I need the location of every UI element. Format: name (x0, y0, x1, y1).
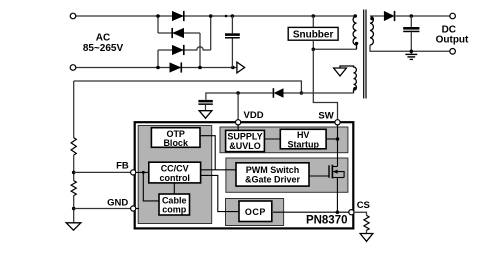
svg-text:VDD: VDD (244, 110, 264, 121)
capacitor C1 bulk (225, 16, 240, 68)
svg-text:control: control (159, 173, 190, 183)
node output cap bottom (410, 50, 414, 54)
box CC/CV control (149, 162, 201, 183)
wire CS external (354, 212, 367, 215)
transformer core (364, 10, 366, 99)
wire HV to SW (326, 138, 337, 140)
snubber box (288, 27, 338, 40)
wire bridge left rise from bottom to row3 (157, 50, 159, 68)
pin GND (131, 206, 136, 211)
wire SW feed (313, 49, 337, 121)
wire OTP out (200, 136, 215, 170)
wire R2 to GND node (73, 196, 75, 223)
node GND (72, 207, 76, 211)
node snubber bottom (312, 48, 316, 52)
wire top AC bus (73, 15, 357, 17)
diode D6 VDD pointing left (273, 88, 283, 98)
ground arrow right of rail (237, 62, 245, 73)
wire R3 to ground (366, 230, 368, 233)
wire bridge left drop to row2 (157, 16, 159, 33)
panel top gray (220, 127, 348, 153)
transistor Q1 MOSFET (329, 165, 344, 179)
wire left divider drop (73, 81, 75, 138)
wire CCCV to OCP (201, 175, 240, 211)
diode D2 row2 pointing left (172, 28, 184, 38)
pin VDD (236, 120, 241, 125)
svg-text:GND: GND (107, 198, 128, 209)
wire VDD line (206, 93, 274, 100)
diode D3 row3 (172, 45, 184, 55)
svg-text:Block: Block (163, 138, 189, 148)
transformer T1 primary (353, 16, 358, 49)
wire row2 anode down to bottom rail (199, 33, 201, 68)
ground aux (334, 68, 347, 76)
wire FB divider feed (74, 81, 302, 93)
box OCP (239, 201, 272, 222)
transformer secondary (370, 16, 374, 45)
wire SUPPLY to HV (264, 138, 280, 140)
node dots top bus (156, 14, 160, 18)
diode D4 bottom rail (170, 62, 182, 72)
wire aux to VDD diode (284, 92, 354, 94)
wire bottom AC rail (73, 67, 237, 69)
ground CS (360, 234, 373, 242)
wire VDD internal (237, 123, 239, 130)
svg-text:Startup: Startup (287, 139, 319, 149)
svg-text:CS: CS (357, 200, 370, 211)
capacitor C3 output (403, 16, 419, 51)
node FB (72, 171, 76, 175)
svg-text:85~265V: 85~265V (83, 43, 124, 54)
transformer aux winding (340, 66, 357, 93)
wire VDD pin drop (237, 93, 239, 121)
snubber drop from bus (312, 16, 314, 27)
node VDD (236, 91, 240, 95)
svg-text:AC: AC (96, 33, 110, 44)
DC output terminal bottom (450, 49, 456, 55)
panel left gray (138, 126, 212, 224)
node aux junction (300, 91, 304, 95)
box Cable comp (159, 194, 190, 215)
wire CCCV to cable comp (173, 183, 175, 194)
wire GND stub (136, 208, 140, 210)
svg-text:&UVLO: &UVLO (229, 141, 261, 151)
capacitor C2 VDD (198, 100, 212, 111)
DC output terminal top (450, 13, 456, 19)
node output cap top (410, 14, 414, 18)
box PWM Switch Gate Driver (236, 163, 309, 186)
wire row3 cathode up to top bus (210, 16, 212, 50)
svg-text:PWM Switch: PWM Switch (246, 165, 300, 175)
wire CCCV to PWM (201, 169, 236, 171)
wire source to CS (336, 178, 338, 213)
IC U1 PN8370 outline (135, 122, 354, 228)
wire primary bottom horizontal (313, 48, 356, 50)
resistor R1 (71, 138, 76, 156)
diode D1 top (172, 11, 184, 21)
panel ocp gray (226, 199, 284, 226)
wire secondary top to output (370, 15, 384, 17)
box HV Startup (280, 129, 326, 149)
resistor R2 (71, 181, 76, 196)
wire SW drain (337, 123, 339, 167)
svg-text:Snubber: Snubber (293, 30, 334, 41)
wire FB to pin (74, 171, 131, 173)
node dots bottom rail (156, 66, 160, 70)
diode D5 output (384, 11, 450, 21)
ground VDD cap (199, 111, 212, 119)
svg-text:&Gate Driver: &Gate Driver (245, 175, 301, 185)
svg-text:SW: SW (318, 111, 333, 122)
pin SW (335, 120, 340, 125)
wire R1 to FB node (73, 155, 75, 181)
wire FB internal (136, 171, 149, 173)
wire FB to cable comp (143, 172, 159, 201)
ground secondary (405, 51, 417, 59)
ground primary left (66, 223, 81, 230)
resistor R3 CS (364, 215, 369, 230)
wire PWM to gate (309, 175, 329, 177)
wire row3 horizontal (158, 47, 211, 50)
pin FB (131, 170, 136, 175)
box SUPPLY UVLO (226, 130, 265, 151)
box OTP Block (151, 128, 200, 148)
wire secondary bottom (370, 45, 450, 51)
AC terminal top (70, 13, 76, 19)
svg-text:OCP: OCP (245, 207, 266, 217)
svg-text:FB: FB (116, 160, 129, 171)
wire row2 horizontal (158, 32, 200, 34)
wire GND to pin (74, 208, 131, 210)
svg-text:PN8370: PN8370 (306, 215, 348, 227)
panel pwm gray (226, 158, 348, 192)
pin CS (349, 210, 354, 215)
svg-text:comp: comp (162, 205, 187, 215)
svg-text:Output: Output (436, 35, 469, 46)
AC terminal bottom (70, 65, 76, 71)
wire snubber to primary bottom (312, 40, 314, 49)
wire OCP to CS (273, 211, 349, 213)
